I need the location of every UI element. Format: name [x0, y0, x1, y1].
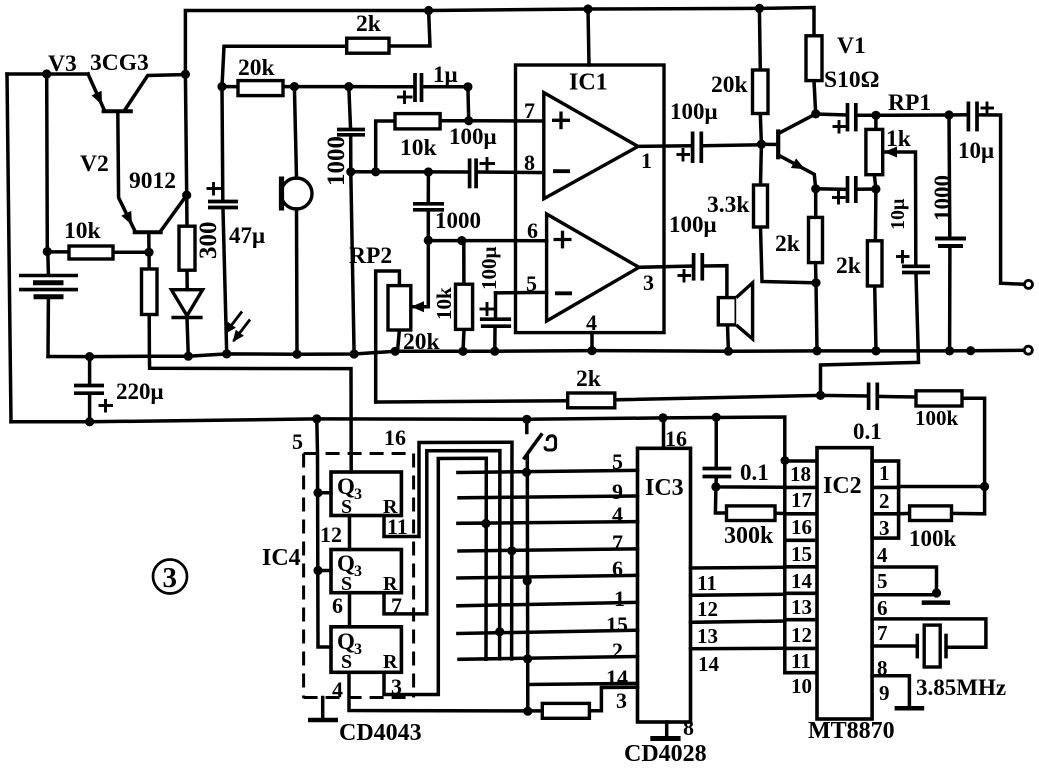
- svg-text:13: 13: [791, 595, 812, 619]
- svg-text:CD4028: CD4028: [624, 741, 707, 767]
- svg-text:14: 14: [791, 569, 813, 593]
- svg-text:1000: 1000: [323, 136, 350, 186]
- svg-text:4: 4: [332, 677, 343, 702]
- svg-text:R: R: [383, 573, 398, 595]
- svg-text:1μ: 1μ: [433, 62, 458, 87]
- svg-text:100k: 100k: [909, 526, 957, 551]
- svg-text:0.1: 0.1: [740, 460, 769, 485]
- svg-text:14: 14: [606, 665, 628, 690]
- svg-text:R: R: [383, 651, 398, 673]
- svg-text:6: 6: [877, 596, 888, 620]
- svg-text:1: 1: [614, 586, 625, 611]
- svg-text:0.1: 0.1: [853, 419, 882, 444]
- svg-text:3: 3: [643, 270, 654, 295]
- svg-text:9012: 9012: [129, 168, 176, 194]
- svg-text:2k: 2k: [775, 231, 801, 257]
- svg-text:1000: 1000: [930, 175, 955, 221]
- svg-text:100k: 100k: [915, 406, 959, 430]
- svg-text:18: 18: [790, 462, 811, 486]
- svg-text:13: 13: [697, 624, 718, 648]
- svg-text:100μ: 100μ: [669, 212, 717, 237]
- svg-text:10μ: 10μ: [958, 138, 994, 163]
- svg-text:S10Ω: S10Ω: [824, 67, 879, 93]
- svg-text:9: 9: [879, 681, 890, 705]
- svg-text:20k: 20k: [711, 72, 749, 98]
- svg-text:8: 8: [683, 715, 694, 740]
- svg-text:15: 15: [606, 612, 628, 637]
- svg-text:10k: 10k: [400, 135, 438, 161]
- svg-text:8: 8: [524, 150, 535, 175]
- svg-text:RP1: RP1: [888, 90, 931, 116]
- svg-text:5: 5: [292, 429, 303, 454]
- svg-text:MT8870: MT8870: [808, 718, 895, 744]
- svg-text:100μ: 100μ: [670, 99, 718, 124]
- svg-text:16: 16: [665, 426, 687, 451]
- svg-text:2: 2: [879, 489, 890, 513]
- svg-text:1: 1: [641, 148, 652, 173]
- svg-text:3: 3: [616, 688, 627, 713]
- svg-text:IC3: IC3: [645, 475, 684, 501]
- svg-text:4: 4: [877, 543, 888, 567]
- svg-text:IC4: IC4: [262, 545, 301, 571]
- svg-text:3: 3: [354, 641, 362, 658]
- svg-text:7: 7: [524, 98, 535, 123]
- svg-text:300: 300: [195, 222, 222, 260]
- svg-text:S: S: [341, 573, 352, 595]
- svg-text:3CG3: 3CG3: [90, 50, 149, 76]
- svg-text:14: 14: [698, 652, 720, 676]
- svg-text:4: 4: [586, 310, 597, 335]
- svg-text:IC2: IC2: [823, 473, 862, 499]
- svg-text:15: 15: [791, 542, 812, 566]
- svg-text:CD4043: CD4043: [339, 720, 422, 746]
- svg-text:S: S: [341, 496, 352, 518]
- svg-text:300k: 300k: [724, 523, 774, 549]
- svg-text:9: 9: [612, 479, 623, 504]
- svg-text:17: 17: [791, 488, 812, 512]
- svg-text:12: 12: [697, 597, 718, 621]
- svg-text:11: 11: [697, 571, 717, 595]
- svg-text:2k: 2k: [356, 11, 382, 37]
- svg-text:RP2: RP2: [349, 243, 392, 269]
- svg-text:10k: 10k: [64, 218, 102, 244]
- svg-text:10k: 10k: [432, 287, 456, 320]
- svg-text:V2: V2: [80, 151, 109, 177]
- svg-text:2k: 2k: [836, 253, 862, 279]
- svg-text:6: 6: [612, 556, 623, 581]
- svg-text:3: 3: [354, 486, 362, 503]
- svg-text:100μ: 100μ: [477, 247, 501, 291]
- svg-text:IC1: IC1: [569, 70, 608, 96]
- svg-text:5: 5: [526, 271, 537, 296]
- svg-text:3.85MHz: 3.85MHz: [916, 675, 1006, 700]
- svg-text:3: 3: [391, 674, 402, 699]
- svg-text:1: 1: [879, 461, 890, 485]
- svg-text:11: 11: [791, 649, 811, 673]
- svg-text:47μ: 47μ: [229, 223, 265, 248]
- svg-text:7: 7: [612, 530, 623, 555]
- svg-text:100μ: 100μ: [449, 124, 497, 149]
- svg-text:3: 3: [879, 516, 890, 540]
- svg-text:5: 5: [877, 569, 888, 593]
- svg-text:5: 5: [612, 449, 623, 474]
- svg-text:10: 10: [791, 674, 812, 698]
- svg-text:6: 6: [527, 218, 538, 243]
- svg-text:8: 8: [877, 656, 888, 680]
- svg-text:4: 4: [612, 502, 623, 527]
- svg-text:20k: 20k: [238, 55, 276, 81]
- svg-text:6: 6: [332, 593, 343, 618]
- svg-text:12: 12: [320, 522, 342, 547]
- svg-text:12: 12: [791, 623, 812, 647]
- svg-text:1000: 1000: [435, 208, 481, 233]
- svg-text:S: S: [341, 651, 352, 673]
- svg-text:7: 7: [877, 621, 888, 645]
- svg-text:3: 3: [163, 562, 178, 594]
- svg-text:2k: 2k: [576, 366, 602, 392]
- svg-text:10μ: 10μ: [887, 198, 909, 230]
- svg-text:7: 7: [391, 593, 402, 618]
- svg-text:3: 3: [354, 563, 362, 580]
- svg-text:2: 2: [612, 638, 623, 663]
- svg-text:V1: V1: [837, 33, 866, 59]
- svg-text:16: 16: [384, 425, 406, 450]
- svg-text:16: 16: [791, 515, 812, 539]
- svg-text:R: R: [383, 496, 398, 518]
- svg-text:20k: 20k: [403, 329, 441, 355]
- svg-text:1k: 1k: [886, 126, 912, 152]
- svg-text:V3: V3: [48, 51, 77, 77]
- svg-text:220μ: 220μ: [116, 379, 164, 404]
